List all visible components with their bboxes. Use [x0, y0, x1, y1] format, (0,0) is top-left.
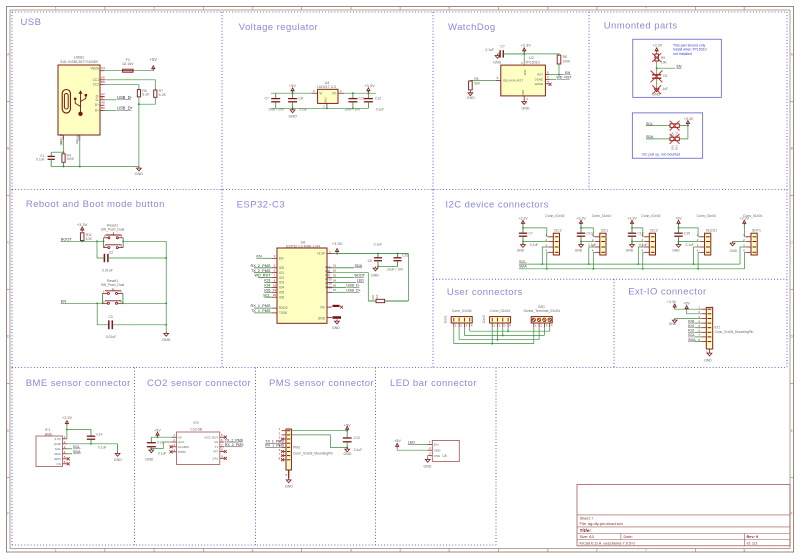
svg-text:C?: C?: [500, 44, 504, 48]
S*1 pin 3: [63, 445, 67, 449]
wire pin D+ stub to label: [105, 110, 117, 112]
capacitor C14 0.1uF bme: [87, 429, 107, 449]
U6 RXD0 pin: [251, 304, 277, 308]
svg-text:R13: R13: [675, 144, 679, 150]
svg-text:USB_D-: USB_D-: [117, 95, 133, 100]
wire I2C2 pin2 to cap: [523, 241, 548, 243]
svg-text:not Installed: not Installed: [673, 52, 692, 56]
pin GND A1: [75, 133, 80, 144]
svg-text:26: 26: [333, 283, 337, 287]
ground I2C1: [575, 241, 584, 253]
svg-text:Title:: Title:: [580, 528, 592, 534]
svg-text:SCL: SCL: [263, 293, 270, 297]
svg-text:Conn_01x04: Conn_01x04: [697, 214, 716, 218]
pin D+ B6: [95, 106, 105, 113]
svg-text:IO6: IO6: [279, 295, 284, 299]
svg-text:BME sensor connector: BME sensor connector: [26, 378, 131, 389]
wire OLED1 pin3 to SCL: [694, 247, 700, 264]
capacitor C18 0.1uF: [628, 227, 648, 247]
wire OLED1 pin1 to power: [679, 228, 704, 237]
U5 pin 3: [428, 452, 433, 456]
svg-text:0.1uF: 0.1uF: [98, 446, 106, 450]
BS1 pin 2: [539, 323, 542, 328]
junction R6/R7 rail: [138, 103, 140, 105]
co2 PWM nc: [170, 450, 173, 453]
svg-text:A1: A1: [75, 140, 79, 144]
svg-text:+3.3V: +3.3V: [684, 117, 694, 121]
wire I2C1 pin3 to SCL: [589, 247, 595, 264]
svg-text:GND: GND: [371, 274, 379, 278]
svg-text:IO3: IO3: [279, 281, 284, 285]
wire C2 right to rail: [108, 257, 167, 259]
svg-text:R/T: R/T: [213, 450, 218, 454]
wire LED label stub: [332, 279, 364, 283]
svg-text:7: 7: [645, 6, 647, 10]
svg-text:GND: GND: [76, 133, 80, 141]
bottom GND rail wire: [51, 166, 139, 168]
junction bottom rail at R4: [63, 166, 81, 168]
wire Tx to label RX_2_PMS: [225, 443, 244, 447]
U6 left pin WD_RST: [254, 274, 277, 278]
power +3.3V for I2C1: [576, 216, 586, 228]
wire Rx to label TX_2_PMS: [225, 438, 244, 442]
section title: LED bar connector: [390, 378, 477, 389]
section title: WatchDog: [448, 22, 496, 33]
svg-text:IO1: IO1: [715, 326, 721, 330]
co2 R/T nc: [224, 450, 227, 453]
power +3.3V unmounted: [652, 43, 662, 52]
svg-text:BOOT: BOOT: [355, 274, 366, 278]
wire PM3 pin2 to cap bottom: [291, 435, 348, 449]
PM3 pin 7: [279, 452, 291, 456]
wire +5V to co2 pin1 and cap C13: [151, 436, 172, 442]
SDA bus wire: [519, 268, 745, 270]
svg-text:RX_1_PMS: RX_1_PMS: [265, 444, 284, 448]
svg-text:0.1uF: 0.1uF: [485, 48, 494, 52]
svg-text:WatchDog: WatchDog: [448, 22, 496, 33]
pin CC2 B5: [93, 80, 106, 87]
capacitor C13 0.1uF pms: [343, 431, 362, 452]
svg-text:IO4: IO4: [688, 324, 694, 328]
wire +5V to PM3 pin1: [291, 430, 348, 432]
svg-text:GND: GND: [730, 249, 738, 253]
svg-text:VBUS: VBUS: [90, 67, 99, 71]
label IO8 extio: [688, 319, 701, 323]
svg-text:IO4: IO4: [279, 286, 284, 290]
svg-text:Id: 1/1: Id: 1/1: [747, 540, 758, 545]
svg-text:C8: C8: [298, 96, 302, 100]
ground below C?: [493, 54, 501, 65]
ground co2: [145, 448, 154, 461]
svg-text:5: 5: [448, 548, 450, 552]
svg-text:DIn: DIn: [434, 443, 439, 447]
svg-text:D+: D+: [95, 103, 99, 107]
svg-text:GND: GND: [704, 359, 712, 363]
svg-text:SCL: SCL: [688, 333, 695, 337]
S*1 pin 4: [63, 450, 67, 454]
U2 pin DONE wire + label WD_RST: [545, 75, 572, 80]
svg-text:A4: A4: [101, 66, 105, 70]
svg-text:R10: R10: [375, 294, 379, 300]
svg-text:SCL: SCL: [73, 445, 80, 449]
svg-text:D+: D+: [95, 109, 99, 113]
U6 TXD0 pin: [251, 309, 277, 313]
S*2 left pin 3: [172, 443, 177, 447]
svg-text:A5: A5: [101, 75, 105, 79]
svg-text:CAL: CAL: [212, 456, 218, 460]
svg-text:Conn_01x04: Conn_01x04: [641, 214, 660, 218]
PM3 pin 2: [279, 431, 291, 435]
U4 pin 2 VO: [338, 89, 344, 93]
svg-text:VDD: VDD: [434, 448, 441, 452]
capacitor C7 10uF/25V: [264, 93, 284, 111]
wire I2C3 pin4 to SDA: [643, 252, 645, 268]
ground pms cap: [344, 448, 352, 457]
wire EN node down to capacitor C3: [97, 303, 109, 325]
svg-text:Conn_01x04: Conn_01x04: [743, 214, 762, 218]
power +3.3V for I2C3: [627, 216, 637, 228]
note box: i2c pullup: [632, 113, 702, 158]
label USB_D-: [117, 95, 133, 100]
svg-text:C7: C7: [264, 96, 268, 100]
right vertical rail reboot: [165, 241, 167, 331]
pin D+ A6: [95, 101, 105, 108]
svg-text:0.1uF: 0.1uF: [686, 243, 694, 247]
power +3.3V watchdog: [520, 42, 531, 54]
svg-text:8: 8: [744, 548, 746, 552]
svg-text:C5: C5: [663, 74, 667, 78]
SHT1 pin 1: [743, 233, 751, 237]
svg-text:Rx: Rx: [215, 440, 219, 444]
label IO4 extio: [688, 324, 701, 328]
svg-text:22: 22: [333, 274, 337, 278]
U6 GND pin: [327, 317, 341, 319]
svg-text:1: 1: [55, 6, 57, 10]
svg-text:Conn_01x04: Conn_01x04: [592, 214, 611, 218]
wire I2C3 pin1 to power: [632, 228, 648, 237]
ground ledbar: [424, 458, 432, 469]
svg-text:+3.3V: +3.3V: [332, 241, 343, 246]
wire R8 bottom to EN wire: [558, 64, 560, 76]
svg-text:C13: C13: [157, 440, 163, 444]
svg-text:IO0: IO0: [279, 266, 284, 270]
esp cap gnd tie: [377, 266, 397, 268]
svg-text:+5V: +5V: [150, 57, 158, 62]
cross over C5: [651, 71, 663, 83]
svg-text:Con1: Con1: [444, 315, 448, 323]
wire SDA to R13: [646, 138, 670, 140]
svg-text:WD_RST: WD_RST: [556, 76, 572, 80]
wire R10 to +3.3V rail: [407, 254, 409, 301]
wire R9 to EN label node: [656, 61, 676, 75]
svg-text:IO5: IO5: [279, 291, 284, 295]
svg-text:IO5: IO5: [264, 288, 270, 292]
Con1 pin 4: [470, 323, 473, 328]
svg-text:B5: B5: [101, 80, 105, 84]
capacitor C10 0.1uF: [577, 227, 597, 247]
svg-text:21: 21: [333, 264, 337, 268]
I2C2 pin 3: [545, 243, 553, 247]
wire I2C1 pin4 to SDA: [593, 252, 595, 268]
IO1 pin 3: [698, 315, 711, 319]
Con1 pin 3: [464, 323, 467, 328]
I2C2 pin 1: [545, 233, 553, 237]
svg-text:5.1K: 5.1K: [142, 93, 150, 97]
svg-text:CC2: CC2: [93, 83, 100, 87]
svg-text:USB1: USB1: [74, 55, 85, 60]
Con2 pin 2: [498, 323, 501, 328]
svg-text:RXD0: RXD0: [279, 306, 288, 310]
svg-text:Tx: Tx: [215, 445, 219, 449]
IO1 pin 4: [698, 319, 711, 323]
pin D- B7: [96, 95, 106, 102]
wire I2C3 pin3 to SCL: [638, 247, 644, 264]
connector SHT1 Conn_01x04 body: [743, 214, 762, 255]
IC U5 led body: [432, 440, 459, 461]
svg-text:C6: C6: [368, 259, 372, 263]
resistor R6 5.1K: [137, 89, 150, 97]
co2 CAL nc: [224, 457, 227, 460]
svg-text:Con2: Con2: [482, 315, 486, 323]
SCL bus wire: [519, 263, 740, 265]
svg-text:SHT1: SHT1: [752, 229, 761, 233]
ground GND vreg: [288, 108, 297, 118]
wire R7 bottom to R6 bottom rail: [139, 97, 155, 104]
connector USB1 body: [58, 55, 100, 136]
svg-text:IO1: IO1: [279, 271, 284, 275]
IO1 pin 7: [698, 333, 711, 337]
ground bme: [114, 452, 122, 462]
svg-text:0.01uF: 0.01uF: [106, 335, 117, 339]
S*1 pin 6: [63, 460, 67, 464]
svg-text:0.1uF: 0.1uF: [530, 243, 538, 247]
svg-text:IO3: IO3: [688, 329, 694, 333]
IC U2 TPL5010 body: [501, 56, 546, 96]
svg-text:GND: GND: [344, 452, 352, 456]
svg-text:I2C1: I2C1: [601, 229, 608, 233]
U4 pin 1 GND bottom: [323, 103, 327, 108]
power +3.3V pullup: [684, 117, 694, 139]
svg-text:Conn_01x04: Conn_01x04: [545, 214, 564, 218]
U6 left pin IO5: [264, 288, 277, 292]
section title: Reboot and Boot mode button: [26, 199, 165, 210]
U5 pin 2: [428, 446, 433, 450]
power +5V co2: [154, 428, 161, 437]
wire OLED1 pin4 to SDA: [698, 252, 700, 268]
U6 left pin IO4: [264, 283, 277, 287]
svg-text:+3.3V: +3.3V: [518, 216, 528, 220]
power +3.3V vreg: [364, 83, 375, 94]
wire SW2 right to rail: [122, 302, 167, 304]
svg-text:GND: GND: [626, 249, 634, 253]
OLED1 pin 1: [697, 233, 705, 237]
wire C3 right to rail: [112, 324, 167, 326]
svg-text:KiCad E.D.A. eeschema 7.0.5-0: KiCad E.D.A. eeschema 7.0.5-0: [580, 540, 636, 545]
svg-text:NC: NC: [320, 306, 325, 310]
wire IO8 to R10 node: [332, 273, 368, 301]
IO1 pin 1: [698, 306, 711, 310]
PM3 pin 1: [279, 427, 291, 431]
wire LED label to U5 DIn: [415, 443, 427, 445]
label USB_D+: [117, 106, 134, 111]
svg-text:GND: GND: [145, 458, 153, 462]
output rail wire: [344, 92, 376, 94]
svg-text:10K: 10K: [661, 60, 668, 64]
section title: Unmonted parts: [604, 21, 678, 32]
PM3 mounting pin to ground: [285, 470, 293, 489]
svg-text:Screw_Terminal_01x04: Screw_Terminal_01x04: [524, 309, 560, 313]
svg-text:+3.3V: +3.3V: [317, 252, 326, 256]
label SDA extio: [688, 338, 701, 342]
capacitor C8 0.1uF: [288, 93, 307, 111]
U6 right pin 22: [327, 274, 336, 278]
capacitor C3 0.01uF en: [106, 315, 117, 339]
svg-text:CO2 sensor connector: CO2 sensor connector: [147, 378, 251, 389]
svg-text:GND: GND: [467, 96, 475, 100]
U4 pin 3 VI: [311, 89, 317, 93]
U6 left pin names: [279, 256, 288, 315]
power +5V pms: [344, 423, 351, 430]
U6 NC pin: [327, 306, 343, 309]
wire pin D- stub to label: [105, 99, 117, 101]
wire U5 VSS to ground: [427, 456, 429, 458]
svg-text:USB: USB: [21, 17, 42, 28]
svg-text:0.1uF: 0.1uF: [354, 448, 362, 452]
svg-text:+3.3V: +3.3V: [652, 43, 662, 47]
svg-text:6: 6: [547, 6, 549, 10]
wire USB_D+ label stub: [332, 288, 361, 292]
svg-text:ALARM: ALARM: [178, 445, 189, 449]
U6 right pin 26: [327, 283, 336, 287]
svg-text:VDD: VDD: [523, 70, 527, 76]
svg-text:GND: GND: [521, 90, 525, 96]
svg-text:TX_1_PMS: TX_1_PMS: [251, 309, 271, 313]
svg-text:SCL: SCL: [519, 260, 526, 264]
bme pin5 nc: [67, 457, 70, 460]
label IO3 extio: [688, 329, 701, 333]
svg-text:0.01uF: 0.01uF: [102, 269, 113, 273]
switch SW2 Reset1 SW_Push_Dual: [101, 279, 125, 304]
power +3.3V for I2C2: [518, 216, 528, 228]
wire co2 pin2 to gnd node: [150, 442, 172, 449]
U2 GND pin to ground: [522, 96, 530, 110]
I2C3 pin 4: [641, 249, 649, 253]
svg-text:GND: GND: [669, 322, 677, 326]
svg-text:GND: GND: [288, 115, 297, 119]
U6 right pin 27: [327, 288, 336, 292]
connector S*2 Co2-5B body: [177, 421, 220, 464]
connector S*1 BME body: [36, 428, 63, 466]
I2C2 pin 4: [545, 249, 553, 253]
svg-text:GND: GND: [493, 61, 501, 65]
ground esp caps: [371, 267, 379, 278]
S*1 pin 5: [63, 455, 67, 459]
wire I2C2 pin1 to power: [523, 228, 552, 237]
svg-text:BOOT: BOOT: [61, 236, 73, 241]
svg-text:SDA: SDA: [688, 338, 696, 342]
label SCL extio: [688, 333, 701, 337]
wire BOOT label stub: [332, 274, 366, 278]
svg-text:GND: GND: [424, 464, 432, 468]
U6 right pin 21: [327, 264, 336, 268]
svg-text:GND: GND: [162, 338, 171, 342]
svg-text:GND: GND: [135, 172, 144, 176]
OLED1 pin 2: [697, 238, 705, 242]
svg-text:File: ag-diy-pro.kicad.sch: File: ag-diy-pro.kicad.sch: [580, 521, 623, 526]
switch SW1 Reset1 SW_Push_Dual: [101, 223, 125, 248]
capacitor C11 22uF/10V: [345, 92, 365, 111]
svg-text:0.1uF: 0.1uF: [36, 158, 44, 162]
svg-text:Conn_01x08_MountingPin: Conn_01x08_MountingPin: [715, 330, 754, 334]
note text i2c pullup: [642, 153, 680, 157]
svg-text:56K: 56K: [474, 81, 481, 85]
svg-text:User connectors: User connectors: [447, 287, 523, 298]
capacitor C6 0.1uF esp: [368, 242, 383, 266]
label BOOT: [61, 236, 73, 241]
capacitor C1 0.1uF: [36, 152, 54, 166]
power +5V: [150, 57, 158, 70]
title block outline: [577, 484, 790, 545]
capacitor C? 0.1uF watchdog: [485, 44, 524, 57]
svg-text:22uF / 10V: 22uF / 10V: [387, 268, 404, 272]
svg-text:27: 27: [333, 288, 337, 292]
resistor R5 56K: [469, 77, 496, 91]
svg-text:3: 3: [252, 6, 254, 10]
U6 right pin 14: [327, 278, 336, 282]
wire R8 top to +3.3V rail: [524, 54, 559, 55]
svg-text:0.1uF: 0.1uF: [376, 107, 384, 111]
svg-text:I2C3: I2C3: [650, 229, 657, 233]
svg-text:Voltage regulator: Voltage regulator: [239, 22, 318, 33]
svg-text:+5V: +5V: [675, 216, 682, 220]
svg-text:U4: U4: [325, 81, 330, 85]
wire SHT1 pin3 to SCL: [740, 247, 746, 264]
svg-text:PMS sensor connector: PMS sensor connector: [269, 378, 374, 389]
S*2 right pin 8: [220, 448, 225, 452]
ground OLED1: [672, 241, 681, 253]
S*2 left pin 4: [172, 448, 177, 452]
svg-text:C12: C12: [375, 96, 381, 100]
svg-text:Ext-IO connector: Ext-IO connector: [628, 287, 706, 298]
svg-text:SDO: SDO: [54, 457, 61, 461]
svg-text:1A 16V: 1A 16V: [122, 62, 134, 66]
S*2 right pin 5: [220, 433, 225, 437]
svg-text:GND: GND: [672, 249, 680, 253]
Con1 pin 1: [454, 323, 457, 328]
svg-text:LED: LED: [357, 279, 365, 283]
svg-text:USB_D-: USB_D-: [346, 284, 360, 288]
svg-text:5.2K: 5.2K: [159, 93, 167, 97]
I2C1 pin 2: [592, 238, 600, 242]
U2 pin RST wire + label EN: [545, 70, 570, 75]
U6 left pin SCL: [263, 293, 277, 297]
wire EN to SW2: [61, 302, 104, 304]
svg-text:+3.3V: +3.3V: [627, 216, 637, 220]
title block sheet/file text: [580, 516, 623, 526]
svg-text:IO2: IO2: [279, 276, 284, 280]
svg-text:R5: R5: [474, 77, 478, 81]
I2C3 pin 3: [641, 243, 649, 247]
svg-text:+3.3V: +3.3V: [520, 42, 531, 47]
section title: PMS sensor connector: [269, 378, 374, 389]
ground extio pin3: [669, 319, 702, 326]
svg-text:RX_1_PMS: RX_1_PMS: [251, 304, 271, 308]
svg-text:C3: C3: [108, 315, 112, 319]
label EN reboot: [61, 298, 67, 303]
svg-text:VI: VI: [319, 92, 322, 96]
power +3.3V bme: [62, 416, 72, 426]
power +3.3V esp32: [332, 241, 343, 255]
